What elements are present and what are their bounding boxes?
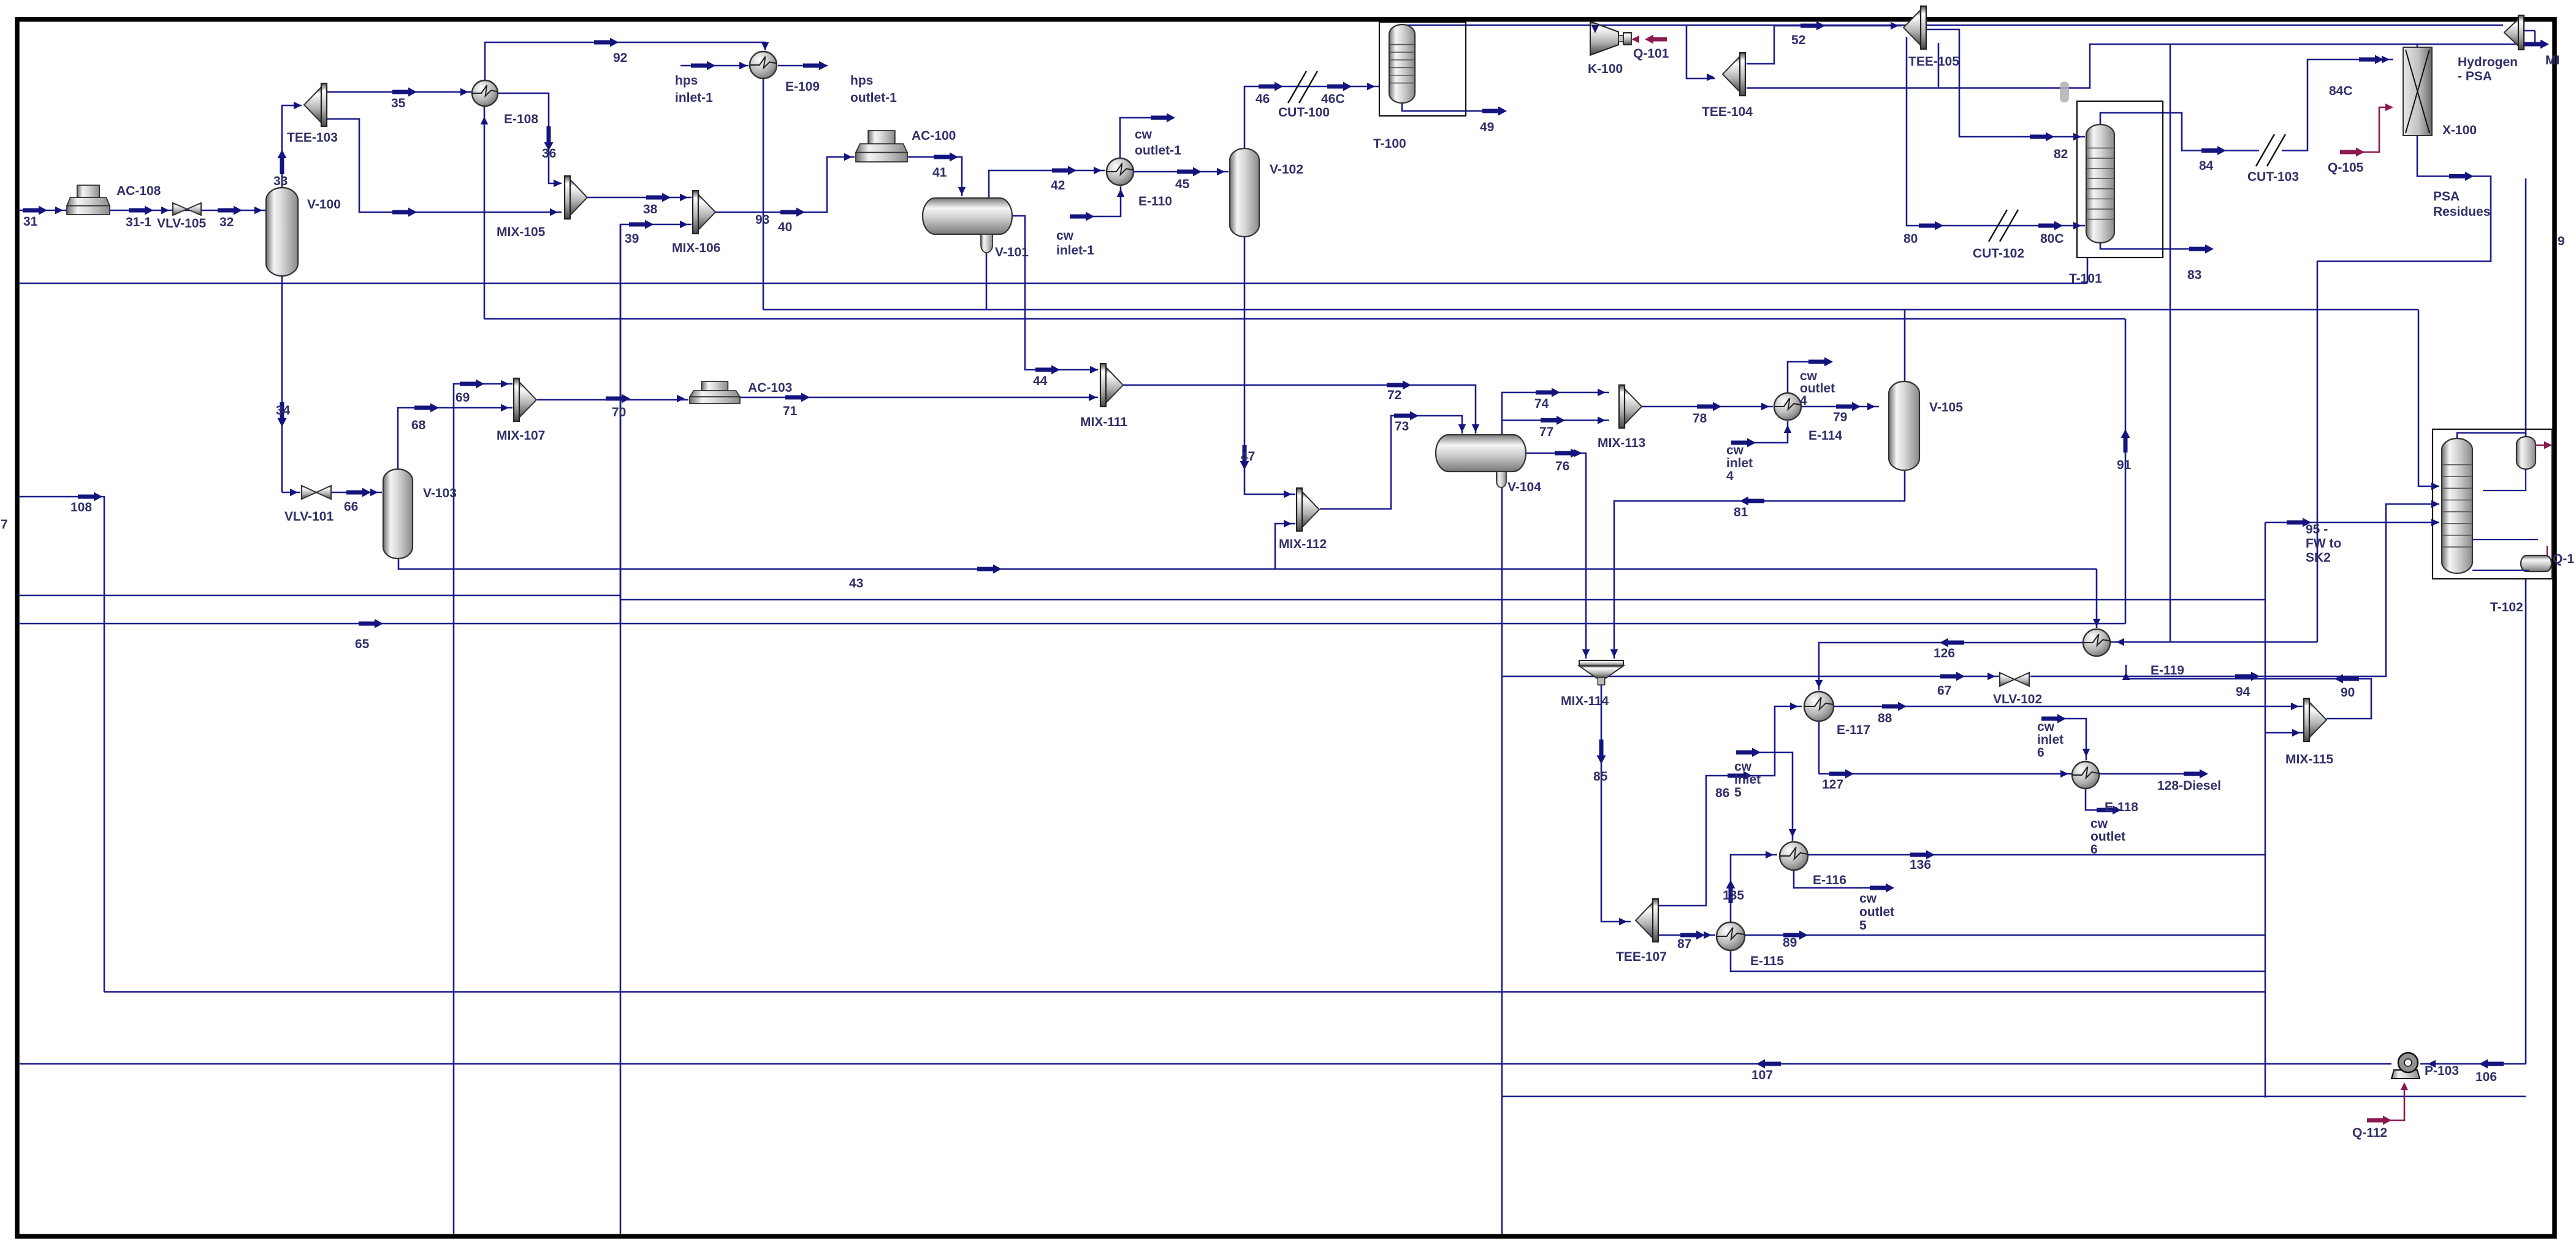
svg-text:TEE-107: TEE-107	[1616, 950, 1667, 964]
svg-text:4: 4	[1800, 394, 1807, 408]
svg-text:31: 31	[23, 215, 38, 229]
svg-text:Q-112: Q-112	[2352, 1126, 2387, 1140]
svg-text:inlet-1: inlet-1	[675, 91, 713, 105]
svg-text:95 -: 95 -	[2306, 522, 2328, 537]
svg-text:136: 136	[1910, 858, 1931, 872]
svg-text:E-114: E-114	[1808, 429, 1842, 443]
svg-text:cw: cw	[1859, 892, 1877, 906]
svg-text:E-108: E-108	[504, 112, 538, 126]
svg-text:T-102: T-102	[2490, 600, 2523, 614]
svg-text:91: 91	[2117, 458, 2132, 472]
svg-text:38: 38	[643, 202, 658, 216]
svg-text:AC-103: AC-103	[748, 381, 792, 395]
svg-text:cw: cw	[1726, 443, 1744, 457]
svg-text:44: 44	[1033, 374, 1048, 388]
svg-text:outlet: outlet	[2090, 830, 2125, 844]
svg-text:inlet-1: inlet-1	[1056, 243, 1094, 258]
svg-text:80: 80	[1903, 232, 1918, 246]
svg-text:MIX-105: MIX-105	[497, 225, 546, 239]
svg-text:69: 69	[455, 391, 470, 405]
svg-text:35: 35	[391, 96, 406, 110]
svg-text:MIX-114: MIX-114	[1561, 694, 1609, 708]
svg-text:94: 94	[2236, 685, 2250, 699]
svg-text:E-119: E-119	[2151, 663, 2184, 678]
svg-text:89: 89	[1783, 936, 1797, 950]
svg-text:88: 88	[1878, 711, 1892, 725]
svg-text:inlet: inlet	[2037, 733, 2063, 747]
svg-text:MI: MI	[2545, 53, 2559, 67]
svg-text:V-103: V-103	[423, 486, 457, 500]
svg-text:9: 9	[2558, 234, 2565, 248]
svg-text:MIX-113: MIX-113	[1598, 436, 1645, 450]
svg-text:hps: hps	[850, 74, 873, 88]
svg-text:CUT-100: CUT-100	[1278, 105, 1330, 120]
svg-text:Q-105: Q-105	[2328, 161, 2364, 175]
svg-text:MIX-112: MIX-112	[1279, 537, 1327, 551]
svg-text:74: 74	[1534, 397, 1549, 411]
svg-text:65: 65	[355, 637, 370, 651]
svg-text:TEE-105: TEE-105	[1908, 55, 1959, 69]
svg-text:5: 5	[1734, 785, 1742, 800]
svg-text:92: 92	[613, 51, 627, 65]
svg-text:71: 71	[783, 404, 798, 418]
svg-text:31-1: 31-1	[126, 215, 151, 229]
svg-text:cw: cw	[2037, 720, 2055, 734]
svg-text:E-109: E-109	[785, 80, 820, 94]
svg-text:106: 106	[2475, 1070, 2497, 1084]
svg-text:84: 84	[2199, 159, 2214, 173]
svg-text:39: 39	[625, 232, 639, 246]
svg-text:85: 85	[1593, 770, 1608, 784]
svg-text:34: 34	[276, 403, 291, 418]
svg-text:E-116: E-116	[1813, 873, 1846, 887]
svg-text:VLV-101: VLV-101	[284, 510, 333, 524]
svg-text:TEE-104: TEE-104	[1702, 105, 1753, 119]
svg-text:127: 127	[1822, 778, 1843, 792]
svg-text:MIX-111: MIX-111	[1080, 415, 1127, 429]
svg-text:66: 66	[344, 500, 358, 514]
svg-text:70: 70	[612, 405, 626, 419]
svg-text:outlet: outlet	[1859, 905, 1894, 919]
svg-text:81: 81	[1734, 505, 1748, 519]
svg-text:TEE-103: TEE-103	[287, 131, 338, 145]
svg-text:MIX-115: MIX-115	[2285, 752, 2334, 766]
svg-text:128-Diesel: 128-Diesel	[2157, 779, 2221, 793]
svg-text:42: 42	[1051, 178, 1065, 193]
svg-text:87: 87	[1677, 937, 1691, 951]
svg-text:45: 45	[1175, 177, 1190, 191]
svg-text:cw: cw	[2090, 817, 2108, 831]
svg-text:Q-101: Q-101	[1633, 47, 1669, 61]
svg-text:108: 108	[70, 500, 92, 514]
svg-text:84C: 84C	[2329, 84, 2353, 98]
svg-text:80C: 80C	[2040, 232, 2064, 246]
svg-text:E-115: E-115	[1750, 954, 1784, 968]
svg-text:6: 6	[2090, 842, 2098, 857]
svg-text:41: 41	[932, 166, 947, 180]
svg-text:Q-1: Q-1	[2553, 552, 2574, 566]
svg-text:5: 5	[1859, 919, 1867, 933]
svg-text:90: 90	[2341, 686, 2355, 700]
svg-text:MIX-106: MIX-106	[672, 241, 720, 255]
svg-text:46C: 46C	[1321, 92, 1345, 106]
svg-text:SK2: SK2	[2306, 551, 2331, 565]
svg-text:43: 43	[849, 576, 863, 590]
svg-text:AC-108: AC-108	[116, 184, 161, 198]
svg-text:78: 78	[1693, 411, 1707, 426]
svg-text:V-101: V-101	[995, 245, 1029, 259]
svg-text:V-102: V-102	[1270, 162, 1303, 177]
svg-text:86: 86	[1715, 786, 1729, 800]
svg-text:40: 40	[778, 220, 792, 234]
svg-text:33: 33	[273, 174, 288, 188]
svg-text:47: 47	[1241, 449, 1255, 464]
svg-text:Hydrogen: Hydrogen	[2458, 55, 2518, 69]
svg-text:36: 36	[542, 147, 556, 161]
svg-text:72: 72	[1387, 388, 1401, 402]
svg-text:46: 46	[1256, 92, 1270, 106]
svg-text:hps: hps	[675, 74, 698, 88]
svg-text:93: 93	[755, 213, 769, 227]
svg-text:77: 77	[1539, 425, 1553, 439]
svg-text:E-118: E-118	[2105, 800, 2138, 814]
svg-text:V-105: V-105	[1929, 400, 1963, 415]
svg-text:cw: cw	[1056, 229, 1074, 243]
svg-text:67: 67	[1937, 684, 1951, 698]
svg-text:135: 135	[1723, 888, 1744, 903]
svg-text:79: 79	[1833, 410, 1847, 424]
svg-text:cw: cw	[1734, 760, 1752, 774]
svg-text:E-110: E-110	[1138, 194, 1172, 208]
svg-text:MIX-107: MIX-107	[497, 429, 545, 443]
svg-text:AC-100: AC-100	[912, 129, 956, 143]
svg-text:X-100: X-100	[2442, 123, 2477, 137]
svg-text:76: 76	[1555, 459, 1569, 473]
svg-text:P-103: P-103	[2425, 1064, 2459, 1078]
svg-text:7: 7	[1, 518, 8, 532]
svg-text:VLV-105: VLV-105	[157, 216, 206, 231]
svg-text:T-100: T-100	[1373, 137, 1406, 151]
svg-text:CUT-103: CUT-103	[2247, 170, 2299, 184]
svg-text:- PSA: - PSA	[2458, 69, 2492, 83]
svg-text:VLV-102: VLV-102	[1993, 692, 2042, 706]
svg-text:V-104: V-104	[1507, 480, 1541, 494]
svg-text:FW to: FW to	[2306, 537, 2341, 551]
svg-text:inlet: inlet	[1734, 773, 1761, 787]
svg-text:PSA: PSA	[2433, 189, 2460, 204]
svg-text:82: 82	[2054, 147, 2068, 161]
svg-text:6: 6	[2037, 746, 2044, 760]
svg-text:outlet-1: outlet-1	[850, 91, 897, 105]
svg-text:126: 126	[1934, 646, 1955, 660]
svg-text:73: 73	[1395, 419, 1409, 434]
svg-text:K-100: K-100	[1588, 62, 1623, 76]
svg-text:68: 68	[411, 418, 426, 432]
svg-text:inlet: inlet	[1726, 456, 1753, 470]
svg-text:E-117: E-117	[1837, 723, 1870, 737]
svg-text:4: 4	[1726, 469, 1734, 483]
svg-text:outlet-1: outlet-1	[1135, 143, 1181, 158]
svg-text:CUT-102: CUT-102	[1973, 246, 2024, 261]
svg-text:Residues: Residues	[2433, 205, 2490, 219]
svg-text:52: 52	[1791, 33, 1805, 47]
svg-text:V-100: V-100	[307, 197, 341, 212]
svg-text:49: 49	[1480, 120, 1494, 134]
svg-text:T-101: T-101	[2069, 272, 2102, 286]
svg-text:cw: cw	[1135, 128, 1153, 142]
svg-text:32: 32	[219, 215, 234, 229]
svg-text:83: 83	[2187, 268, 2201, 282]
svg-text:107: 107	[1751, 1068, 1773, 1082]
